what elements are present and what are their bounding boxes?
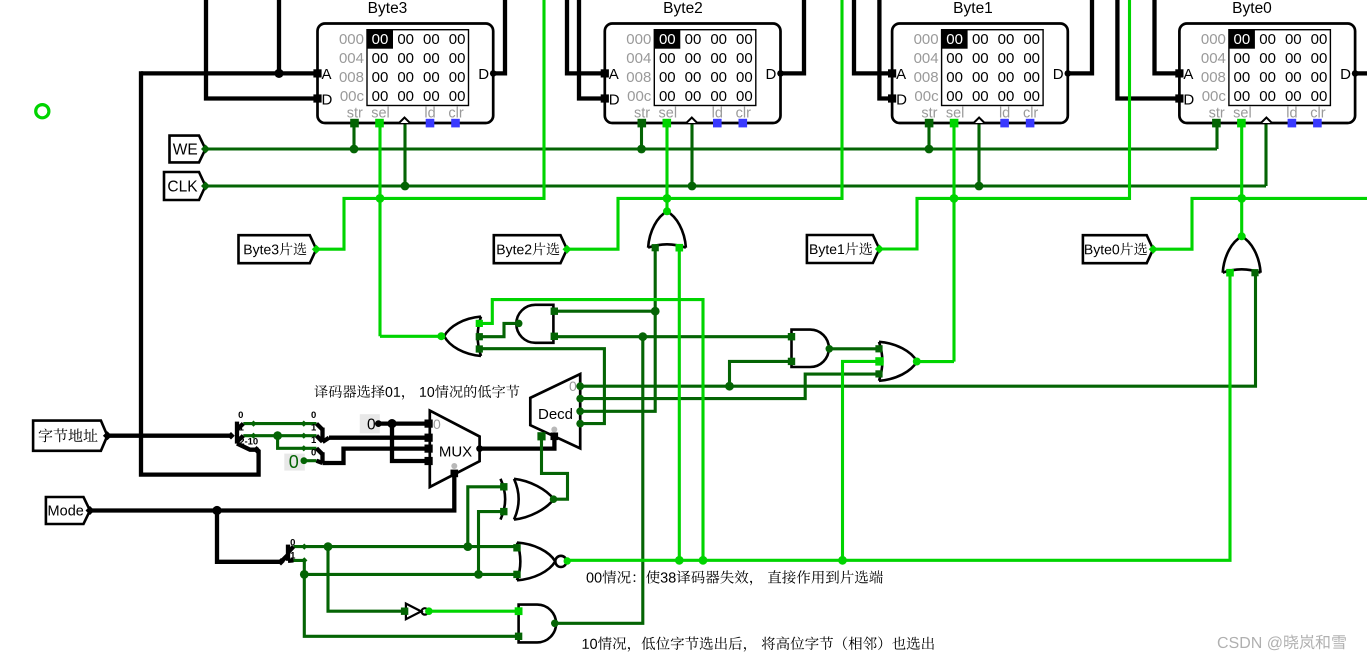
wire const0 branch to mux in3: [392, 424, 429, 461]
splitter S3 (recombine bits to MUX in2): [317, 448, 330, 463]
label note2: [587, 570, 883, 585]
wire byte0 D feed: [1117, 0, 1179, 99]
input pin WE: [170, 136, 206, 163]
port mux select: [451, 470, 459, 478]
svg-text:00: 00: [946, 50, 963, 67]
output dot decd out3: [576, 420, 584, 428]
wire byte2 clk: [690, 123, 693, 186]
wire mode bit0 row: [294, 545, 518, 548]
svg-text:0: 0: [289, 452, 299, 472]
wire and3 out riser: [555, 337, 643, 624]
port nor in bot: [513, 571, 520, 578]
wire decd out3 path: [480, 349, 604, 424]
svg-text:Byte3: Byte3: [368, 0, 408, 17]
junction row560-b: [699, 556, 708, 565]
svg-text:00: 00: [710, 69, 727, 86]
wire byte2 A feed: [567, 0, 605, 73]
wire row336: [555, 335, 792, 338]
OR gate G1 (points left, drives Byte3 sel): [444, 317, 481, 356]
svg-text:00: 00: [946, 31, 963, 48]
pin tip joint j1: [250, 421, 256, 427]
svg-text:Mode: Mode: [48, 504, 84, 520]
wire decd out2 path: [580, 248, 655, 412]
wire and2 out: [829, 347, 879, 350]
wire byte0 str: [1215, 123, 1218, 149]
junction clk-2: [688, 182, 697, 191]
XOR gate G7: [501, 479, 554, 520]
output dot xor output: [550, 495, 558, 503]
svg-text:0: 0: [238, 410, 243, 421]
junction byte3-A-junction: [274, 69, 283, 78]
svg-text:00: 00: [998, 88, 1015, 105]
wire byte0 clk: [1264, 123, 1267, 186]
wire byte3 cs net: [316, 0, 544, 249]
svg-text:000: 000: [339, 31, 364, 48]
pin tip joint j4: [301, 433, 307, 439]
svg-text:00: 00: [736, 69, 753, 86]
wire byte3 sel riser: [378, 123, 381, 336]
svg-text:000: 000: [626, 31, 651, 48]
svg-text:00: 00: [1285, 88, 1302, 105]
port decd select: [551, 433, 559, 441]
pin tip Byte2 cs output: [563, 245, 572, 254]
port mux in3: [425, 457, 433, 465]
NOR gate G8: [517, 543, 567, 581]
wire byte0 A feed: [1155, 0, 1180, 73]
output dot or4 output: [913, 358, 921, 366]
wire or4 out: [917, 360, 954, 363]
wire or2 right in riser: [678, 248, 681, 561]
wire address riser: [141, 71, 259, 474]
svg-text:D: D: [766, 66, 777, 83]
junction row574-xor: [474, 570, 483, 579]
svg-text:00: 00: [1023, 88, 1040, 105]
input pin Byte3 cs: [239, 235, 317, 263]
svg-text:00: 00: [423, 31, 440, 48]
svg-text:004: 004: [339, 50, 364, 67]
port nor in top: [513, 544, 520, 551]
svg-text:0: 0: [433, 416, 441, 432]
svg-text:0: 0: [569, 378, 577, 394]
svg-text:00: 00: [972, 50, 989, 67]
svg-text:00: 00: [685, 50, 702, 67]
output dot and2 output: [826, 345, 834, 353]
multiplexer MUX: [430, 411, 480, 487]
svg-text:00: 00: [710, 88, 727, 105]
label Byte3 cs text: [244, 242, 306, 257]
port xor in top: [500, 483, 507, 490]
decoder Decd: [530, 374, 580, 448]
RAM register Byte3: [313, 0, 496, 127]
svg-text:00: 00: [423, 88, 440, 105]
pin tip Byte0 cs output: [1149, 245, 1158, 254]
OR gate G5 (points up, drives Byte2 sel): [648, 211, 686, 247]
svg-text:00: 00: [1285, 69, 1302, 86]
wire byte2 str: [640, 123, 643, 149]
wire CLK row: [205, 184, 1267, 187]
junction row560-a: [675, 556, 684, 565]
port or4 in mid: [875, 357, 883, 365]
output dot and1 output: [515, 320, 523, 328]
pin tip joint j2: [301, 421, 307, 427]
wire byte2 sel riser: [665, 123, 668, 211]
svg-text:Byte0: Byte0: [1232, 0, 1272, 17]
label Byte0 cs text: [1085, 242, 1147, 257]
port and3 in bot: [515, 633, 522, 640]
wire addr bit0 row: [243, 422, 316, 425]
wire byte0 D out: [1355, 71, 1367, 75]
junction out2-branch: [651, 307, 660, 316]
wire byte3 D out: [493, 0, 505, 73]
RAM register Byte1: [888, 0, 1071, 127]
label watermark: [1218, 635, 1346, 651]
junction row560-c: [838, 556, 847, 565]
svg-text:1: 1: [239, 423, 245, 434]
svg-text:D: D: [1053, 66, 1064, 83]
svg-text:D: D: [609, 92, 620, 109]
svg-text:00c: 00c: [1202, 88, 1227, 105]
svg-text:00: 00: [659, 69, 676, 86]
svg-text:Byte1: Byte1: [953, 0, 993, 17]
svg-text:00: 00: [998, 50, 1015, 67]
svg-text:00: 00: [736, 88, 753, 105]
port not in: [401, 608, 408, 615]
svg-text:0: 0: [311, 410, 316, 421]
output dot const0g out: [301, 457, 308, 464]
port or1 in bot: [476, 345, 483, 352]
wire or1 out: [380, 335, 441, 338]
svg-text:00: 00: [736, 50, 753, 67]
junction cs2-sel: [663, 194, 672, 203]
wire mode branch to splitter: [217, 511, 281, 562]
input pin Byte0 cs: [1083, 235, 1153, 263]
constant 0 (black, to MUX): [360, 414, 380, 433]
svg-text:008: 008: [339, 69, 364, 86]
label Byte2 cs text: [497, 242, 559, 257]
wire row560 nor out net: [567, 273, 1230, 561]
svg-text:008: 008: [914, 69, 939, 86]
wire const green out: [304, 459, 317, 462]
label addr text: [39, 428, 98, 442]
port and2 in top: [788, 333, 795, 340]
junction addr-bit1: [273, 431, 282, 440]
NOT gate G9: [406, 604, 428, 620]
wire address A row: [141, 71, 318, 75]
port or1 in top: [476, 320, 483, 327]
svg-text:CLK: CLK: [167, 179, 198, 196]
svg-text:00c: 00c: [914, 88, 939, 105]
wire byte1 D feed: [879, 0, 892, 99]
svg-text:00: 00: [1285, 31, 1302, 48]
wire xor bottom in: [479, 512, 505, 575]
svg-text:00: 00: [1285, 50, 1302, 67]
wire mode to mux sel: [90, 475, 454, 511]
svg-text:00: 00: [1311, 50, 1328, 67]
port mux in0: [425, 420, 433, 428]
junction clk-1: [975, 182, 984, 191]
output dot or6 output: [1238, 232, 1246, 240]
junction cs0-sel: [1237, 194, 1246, 203]
svg-text:D: D: [478, 66, 489, 83]
svg-text:00: 00: [1234, 88, 1251, 105]
pin tip s4 input end: [277, 558, 285, 566]
svg-text:00: 00: [1234, 50, 1251, 67]
label Byte1 cs text: [810, 242, 872, 257]
svg-text:00: 00: [946, 69, 963, 86]
svg-text:00: 00: [710, 50, 727, 67]
svg-text:00: 00: [1259, 69, 1276, 86]
junction cs3-sel: [376, 194, 385, 203]
pin tip addr output: [103, 431, 112, 440]
port or4 in bot: [875, 370, 882, 377]
svg-text:00: 00: [685, 31, 702, 48]
svg-text:00: 00: [1023, 31, 1040, 48]
svg-text:00: 00: [1311, 88, 1328, 105]
wire byte3 D feed: [206, 0, 318, 99]
wire byte0 sel riser: [1240, 123, 1243, 236]
OR gate G4 (points right, drives Byte1 sel): [879, 342, 917, 381]
output pin circle: [36, 105, 49, 118]
wire byte1 A feed: [854, 0, 892, 73]
AND gate G2 (points left): [516, 305, 553, 343]
svg-text:0: 0: [290, 537, 295, 548]
wire decd out1 path: [580, 374, 879, 399]
pin tip joint j5: [301, 445, 307, 451]
AND gate G3 (points right): [792, 330, 829, 367]
wire byte2 D out: [781, 0, 805, 73]
svg-text:00: 00: [1311, 69, 1328, 86]
svg-text:00: 00: [372, 31, 389, 48]
svg-text:00: 00: [1023, 50, 1040, 67]
svg-text:A: A: [609, 66, 619, 83]
input pin Byte2 cs: [494, 235, 567, 263]
port and1 in bot: [551, 333, 558, 340]
svg-text:00: 00: [736, 31, 753, 48]
wire byte3 clk: [403, 123, 406, 186]
output dot nor output: [564, 557, 571, 564]
port or2 in right: [676, 244, 684, 252]
wire addr bit1 row: [243, 434, 316, 437]
pin tip joint j7: [301, 557, 307, 563]
wire splitterA bus to mux in1: [329, 436, 429, 440]
junction cs1-sel: [950, 194, 959, 203]
wire or1 top in net: [480, 300, 703, 561]
junction row574-leg: [300, 570, 309, 579]
svg-text:00: 00: [449, 31, 466, 48]
port or6 in right: [1251, 269, 1258, 276]
pin tip Byte3 cs output: [312, 245, 321, 254]
wire addr pin to splitter: [107, 434, 231, 438]
svg-text:2-10: 2-10: [239, 436, 258, 447]
pin tip s1 input end: [227, 432, 235, 440]
wire decd out0 row: [580, 273, 1256, 387]
output dot or2 output: [663, 207, 671, 215]
output dot not output: [425, 607, 433, 615]
splitter S2 (recombine bits to MUX in1): [317, 424, 330, 442]
input pin Byte1 cs: [807, 235, 880, 263]
svg-text:008: 008: [1201, 69, 1226, 86]
svg-text:00: 00: [1259, 88, 1276, 105]
svg-text:D: D: [896, 92, 907, 109]
wire xor out to decd en: [542, 436, 568, 499]
svg-text:WE: WE: [173, 142, 198, 159]
svg-text:000: 000: [1201, 31, 1226, 48]
svg-text:00: 00: [1311, 31, 1328, 48]
label note1: [314, 385, 519, 400]
wire and1 out jog: [480, 323, 519, 336]
svg-text:00: 00: [685, 88, 702, 105]
constant 0 (green, to splitter): [284, 454, 305, 471]
port xor in bot: [500, 508, 507, 515]
svg-text:00: 00: [449, 50, 466, 67]
junction row546-not: [324, 542, 333, 551]
svg-text:1: 1: [311, 423, 317, 434]
input pin addr: [33, 421, 107, 451]
port or4 in top: [875, 345, 882, 352]
svg-text:A: A: [322, 66, 332, 83]
svg-text:Byte2: Byte2: [663, 0, 703, 17]
junction mode-junction: [212, 506, 221, 515]
svg-text:00: 00: [1234, 69, 1251, 86]
output dot or1 output: [437, 332, 445, 340]
port and1 in top: [551, 308, 558, 315]
junction we-str1: [925, 145, 934, 154]
junction out0-branch: [725, 382, 734, 391]
svg-text:A: A: [896, 66, 906, 83]
svg-text:00: 00: [1259, 50, 1276, 67]
wire WE row: [205, 147, 1218, 150]
svg-text:00: 00: [998, 69, 1015, 86]
wire out0 branch to and2 low in: [730, 361, 792, 386]
RAM register Byte2: [601, 0, 784, 127]
svg-text:00: 00: [372, 88, 389, 105]
port or2 in left: [652, 244, 659, 251]
wire not gate feed: [328, 547, 402, 612]
label note3: [583, 636, 934, 651]
wire mux out to decd sel: [480, 439, 555, 449]
svg-text:00c: 00c: [340, 88, 365, 105]
wire const0 to mux in0: [378, 421, 428, 425]
wire mode bit1 leg: [294, 560, 305, 574]
output dot decd out1: [576, 395, 584, 403]
output dot and3 output: [551, 620, 559, 628]
junction we-str2: [637, 145, 646, 154]
svg-text:00: 00: [397, 31, 414, 48]
wire not out: [429, 610, 519, 613]
svg-text:00: 00: [449, 69, 466, 86]
junction we-str3: [350, 145, 359, 154]
output dot decd out2: [576, 407, 584, 415]
wire byte1 str: [927, 123, 930, 149]
svg-text:00: 00: [1234, 31, 1251, 48]
svg-text:00: 00: [1023, 69, 1040, 86]
wire splitterB bus to mux in2: [329, 449, 429, 463]
pin tip s1 leg2 end: [253, 446, 261, 454]
output dot const0 out: [375, 420, 382, 427]
svg-text:004: 004: [1201, 50, 1226, 67]
svg-text:00: 00: [423, 69, 440, 86]
RAM register Byte0: [1175, 0, 1358, 127]
output dot decd out0: [576, 382, 584, 390]
svg-text:00: 00: [972, 31, 989, 48]
svg-text:00: 00: [397, 50, 414, 67]
pin tip Byte1 cs output: [875, 245, 884, 254]
wire addr bit1 branch: [278, 436, 317, 449]
wire or4 mid in net: [843, 361, 880, 560]
wire byte1 D out: [1068, 0, 1092, 73]
wire mode bit1 row: [304, 573, 517, 576]
port and2 in bot: [788, 358, 795, 365]
svg-text:00: 00: [972, 88, 989, 105]
svg-text:D: D: [1340, 66, 1351, 83]
svg-text:00: 00: [710, 31, 727, 48]
svg-text:Decd: Decd: [538, 406, 573, 423]
AND gate G10 (bottom): [519, 605, 557, 643]
port or6 in left: [1226, 269, 1234, 277]
wire out2 branch to and1 top in: [555, 310, 656, 313]
junction const0-junction: [387, 419, 396, 428]
OR gate G6 (points up, drives Byte0 sel): [1223, 236, 1261, 272]
svg-text:008: 008: [626, 69, 651, 86]
svg-text:000: 000: [914, 31, 939, 48]
wire byte1 cs net: [879, 0, 1129, 249]
wire byte2 cs net: [567, 0, 842, 249]
splitter S1 (address fan-out): [237, 422, 259, 450]
svg-text:00: 00: [946, 88, 963, 105]
port decd enable: [537, 432, 545, 440]
wire byte0 cs net: [1153, 198, 1367, 249]
svg-text:D: D: [1183, 92, 1194, 109]
svg-text:0: 0: [367, 417, 376, 434]
pin tip CLK output: [201, 182, 210, 191]
svg-text:00: 00: [1259, 31, 1276, 48]
svg-text:004: 004: [914, 50, 939, 67]
input pin Mode: [46, 497, 90, 524]
svg-text:00: 00: [372, 69, 389, 86]
svg-text:1: 1: [290, 551, 296, 562]
port mux in1: [425, 434, 433, 442]
svg-text:00: 00: [998, 31, 1015, 48]
wire byte3 str: [352, 123, 355, 149]
svg-text:MUX: MUX: [439, 444, 472, 461]
wire and3 low in feed: [304, 574, 518, 636]
svg-text:00: 00: [972, 69, 989, 86]
wire byte2 D feed: [579, 0, 605, 99]
pin tip WE output: [201, 145, 210, 154]
output dot mux output: [476, 445, 483, 452]
port and3 in top: [515, 607, 523, 615]
svg-text:00: 00: [685, 69, 702, 86]
svg-text:A: A: [1183, 66, 1193, 83]
pin tip joint j6: [301, 544, 307, 550]
svg-text:00c: 00c: [627, 88, 652, 105]
port or1 in mid: [476, 333, 483, 340]
svg-text:1: 1: [311, 435, 317, 446]
svg-text:00: 00: [659, 88, 676, 105]
svg-text:004: 004: [626, 50, 651, 67]
wire byte1 clk: [977, 123, 980, 186]
svg-text:0: 0: [311, 448, 316, 459]
junction row546-xor: [463, 542, 472, 551]
port mux in2: [425, 445, 433, 453]
svg-text:00: 00: [659, 31, 676, 48]
wire byte3 A feed: [277, 0, 281, 73]
wire byte1 sel riser: [952, 123, 955, 362]
svg-text:00: 00: [397, 69, 414, 86]
pin tip joint j3: [250, 433, 256, 439]
svg-text:D: D: [322, 92, 333, 109]
svg-text:00: 00: [659, 50, 676, 67]
